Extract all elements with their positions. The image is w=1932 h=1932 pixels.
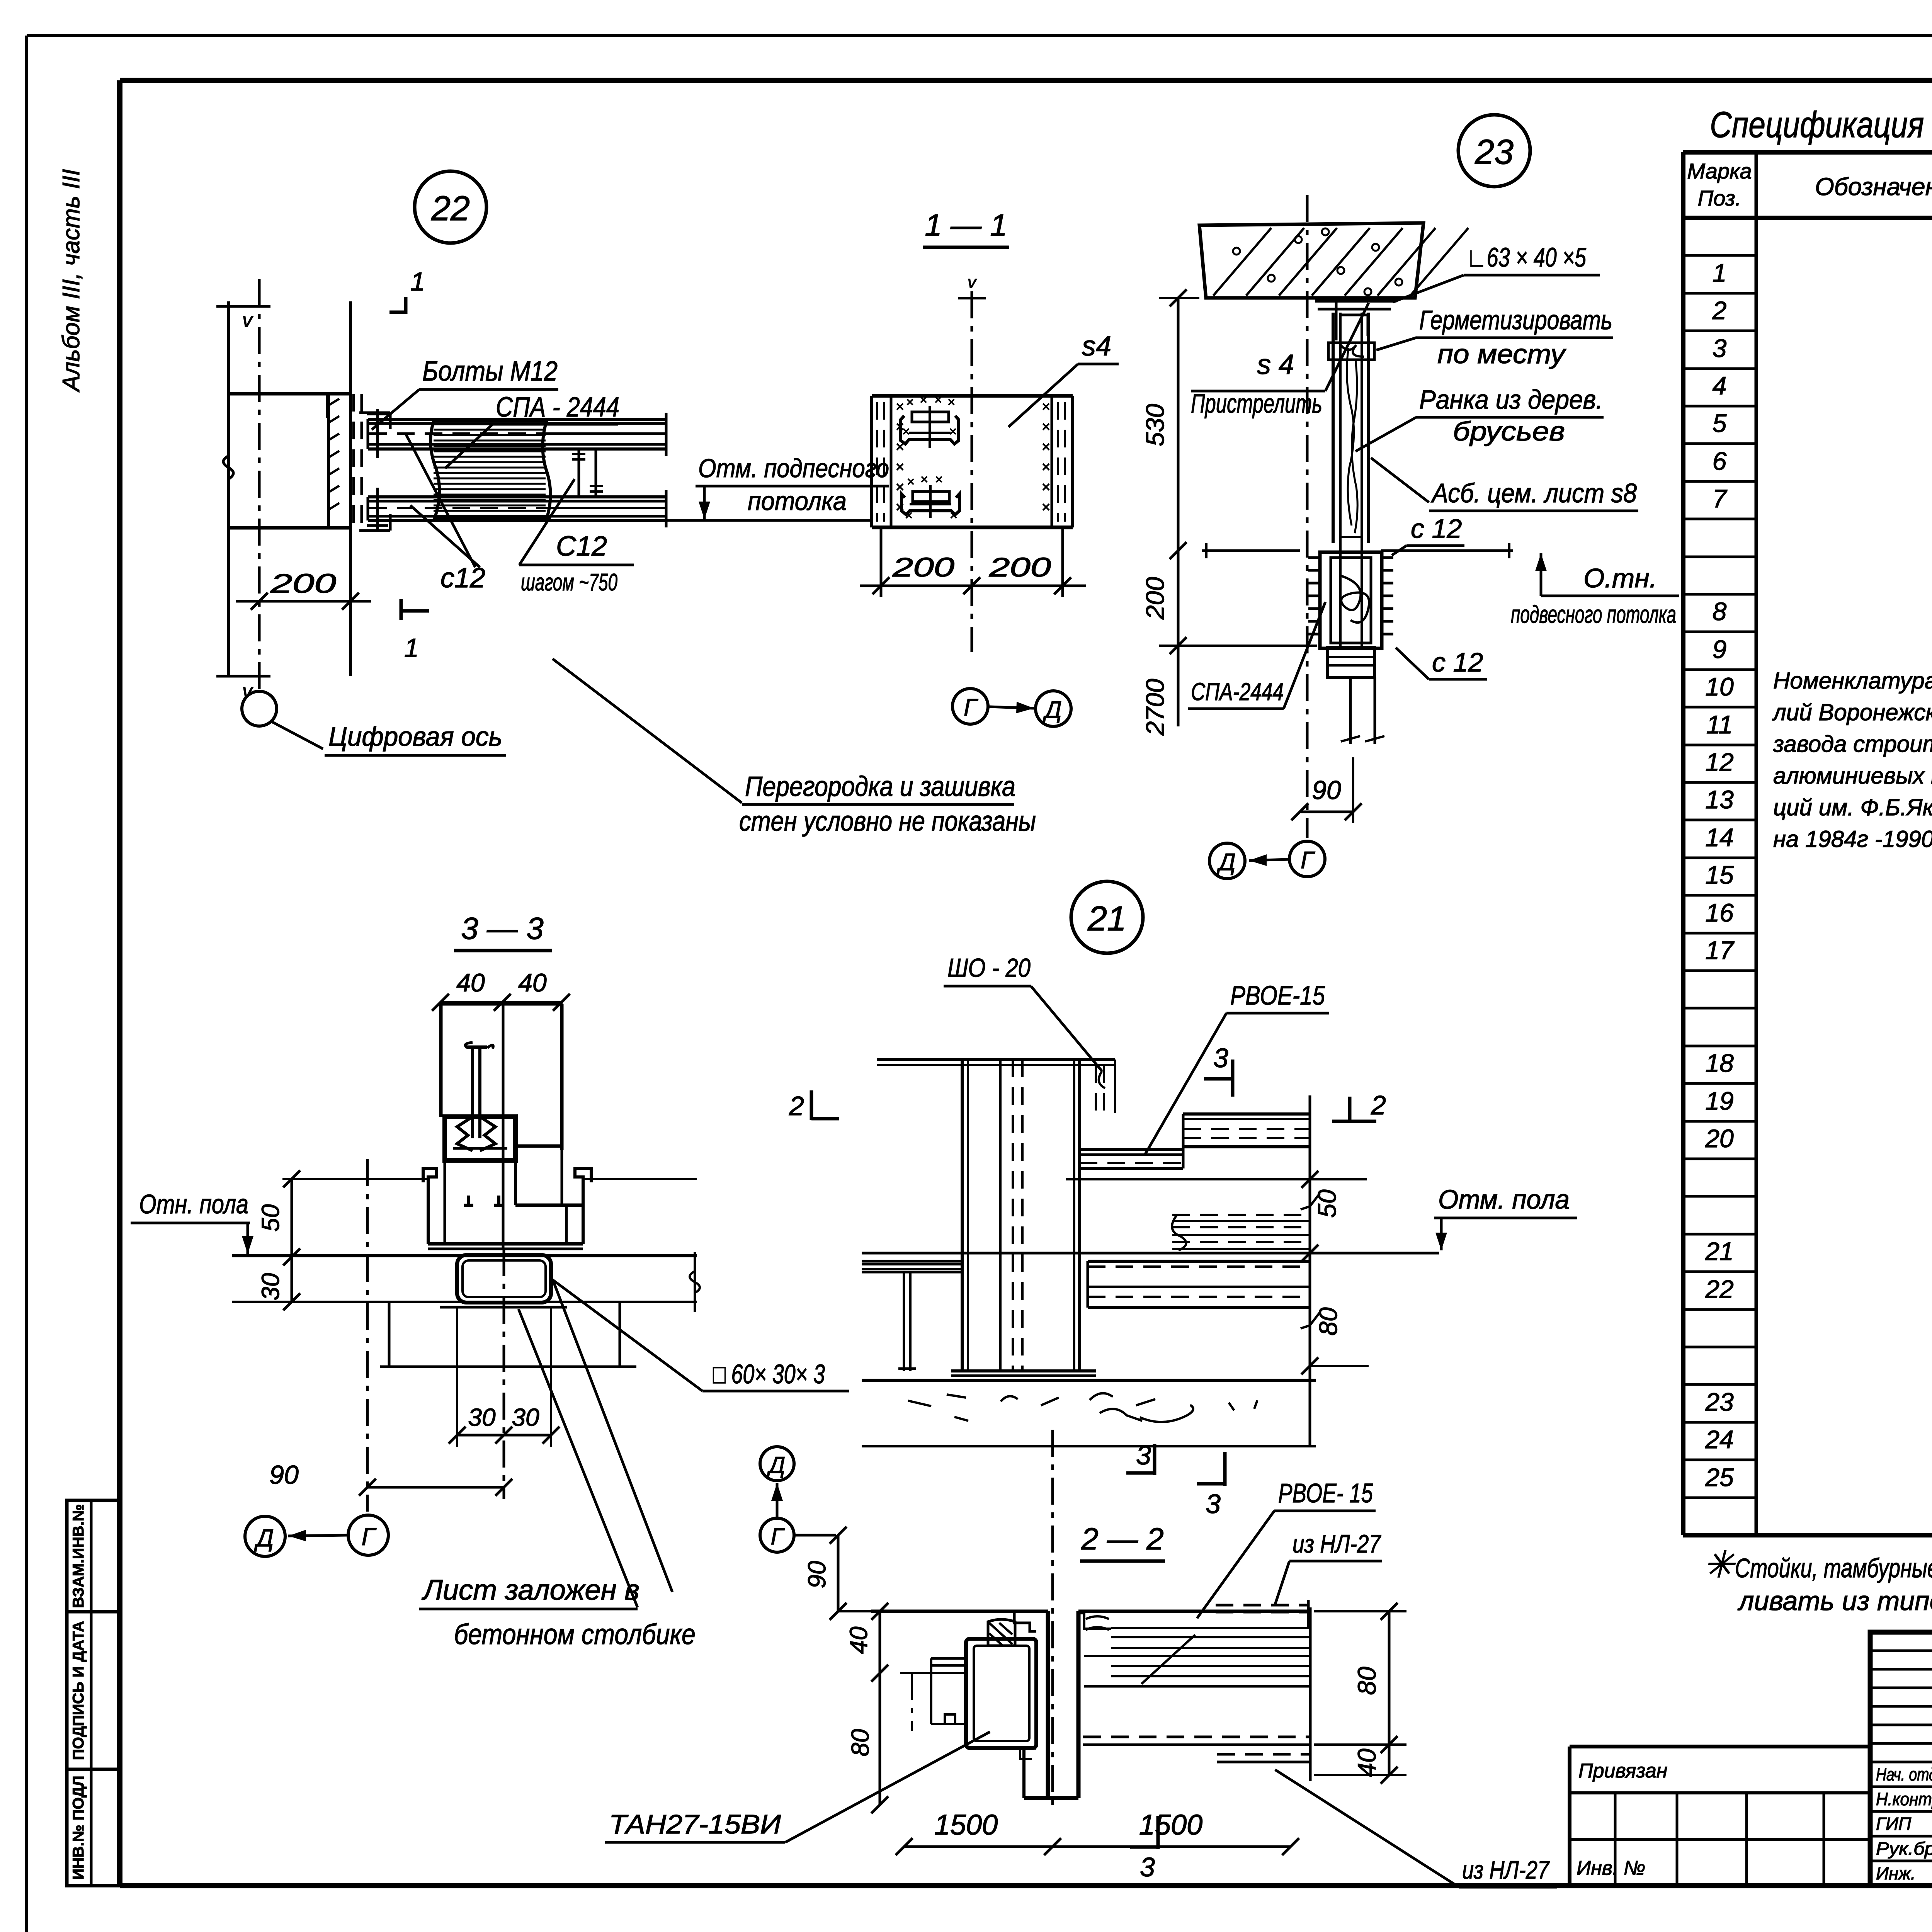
- svg-text:200: 200: [989, 552, 1051, 582]
- svg-text:3: 3: [1140, 1852, 1155, 1882]
- svg-text:80: 80: [1352, 1667, 1381, 1695]
- label c12 lower: [1396, 647, 1487, 679]
- svg-text:Д: Д: [1216, 849, 1236, 876]
- svg-text:О.тн.: О.тн.: [1583, 563, 1657, 593]
- label RVOE-15 21: [1145, 980, 1329, 1155]
- hidden rail lines: [547, 434, 666, 508]
- svg-text:30: 30: [512, 1403, 539, 1431]
- svg-text:ИНВ.№ ПОДЛ: ИНВ.№ ПОДЛ: [70, 1776, 87, 1879]
- svg-text:24: 24: [1705, 1425, 1733, 1454]
- left frame TAN 2-2: [871, 1611, 1048, 1759]
- axis bubbles D G 23: [1209, 841, 1325, 879]
- column base plate: [951, 1371, 1096, 1376]
- axis center 3-3: [503, 1249, 505, 1499]
- svg-text:Пристрелить: Пристрелить: [1191, 388, 1322, 418]
- svg-text:40: 40: [518, 968, 547, 997]
- section mark 3 bottom 2-2: [1130, 1816, 1158, 1882]
- svg-text:РВОЕ-15: РВОЕ-15: [1230, 980, 1325, 1010]
- upper rail C12: [368, 413, 666, 456]
- dims left 90 40 80 2-2: [803, 1527, 966, 1813]
- svg-text:×: ×: [920, 472, 928, 487]
- svg-text:из НЛ-27: из НЛ-27: [1293, 1529, 1381, 1558]
- section mark 2 right 21: [1332, 1090, 1386, 1123]
- svg-text:Стойки, тамбурные блоки и: Стойки, тамбурные блоки и нащельники тре…: [1735, 1553, 1932, 1583]
- svg-text:10: 10: [1705, 672, 1734, 701]
- nomenclature note: [1772, 668, 1932, 852]
- svg-text:200: 200: [270, 568, 337, 599]
- svg-text:25: 25: [1705, 1463, 1734, 1492]
- svg-text:19: 19: [1705, 1087, 1733, 1115]
- cross tie C12: [572, 449, 603, 497]
- svg-text:22: 22: [431, 189, 470, 228]
- svg-text:50: 50: [257, 1204, 284, 1232]
- label c12 upper: [1392, 514, 1464, 555]
- panel rect 1-1: [872, 396, 1073, 527]
- label c12 rails: [405, 433, 485, 594]
- svg-text:завода строительных: завода строительных: [1773, 731, 1932, 757]
- right rail plan 2-2: [1078, 1607, 1310, 1781]
- svg-text:13: 13: [1705, 785, 1734, 814]
- svg-text:Обозначение: Обозначение: [1815, 173, 1932, 201]
- svg-text:ПОДПИСЬ И ДАТА: ПОДПИСЬ И ДАТА: [70, 1621, 87, 1760]
- svg-text:×: ×: [1042, 399, 1050, 415]
- label C12 shagom 750: [519, 479, 634, 596]
- svg-text:14: 14: [1705, 823, 1733, 852]
- partition edge dashed: [354, 394, 362, 528]
- svg-text:∟63 × 40 ×5: ∟63 × 40 ×5: [1466, 242, 1587, 272]
- svg-text:□ 60× 30× 3: □ 60× 30× 3: [713, 1359, 825, 1389]
- svg-text:Лист заложен в: Лист заложен в: [422, 1574, 639, 1606]
- dimension 40 40: [432, 968, 570, 1011]
- title block left grid: [1870, 1632, 1932, 1886]
- svg-text:1: 1: [1713, 259, 1727, 287]
- svg-text:×: ×: [906, 395, 914, 410]
- svg-text:СПА - 2444: СПА - 2444: [496, 392, 619, 423]
- svg-text:Асб. цем. лист s8: Асб. цем. лист s8: [1430, 478, 1637, 508]
- section mark 2 left 21: [789, 1090, 839, 1121]
- svg-text:23: 23: [1475, 133, 1514, 172]
- svg-text:18: 18: [1705, 1049, 1734, 1077]
- svg-text:бетонном столбике: бетонном столбике: [454, 1618, 696, 1650]
- dims right 80 40 2-2: [1314, 1603, 1406, 1784]
- svg-text:Г: Г: [362, 1523, 377, 1551]
- section mark 3 bottom 21: [1197, 1452, 1225, 1519]
- svg-text:3 — 3: 3 — 3: [461, 911, 543, 946]
- label sheet embedded: [419, 1281, 696, 1650]
- svg-text:9: 9: [1713, 635, 1727, 663]
- vertical dimensions 23: [1141, 289, 1317, 736]
- svg-text:23: 23: [1705, 1388, 1734, 1416]
- svg-text:Отм. подпесного: Отм. подпесного: [698, 454, 889, 483]
- svg-text:Инв. №: Инв. №: [1577, 1857, 1645, 1879]
- svg-text:Спецификация к схемам распол: Спецификация к схемам расположения двере…: [1710, 104, 1932, 145]
- label SPA-2444: [445, 392, 619, 468]
- svg-text:с 12: с 12: [1432, 647, 1483, 677]
- svg-text:40: 40: [845, 1626, 872, 1654]
- svg-text:на 1984г -1990гг.: на 1984г -1990гг.: [1773, 826, 1932, 852]
- label s4 pristrelit: [1191, 303, 1369, 418]
- embedded tube 60x30x3: [440, 1255, 567, 1307]
- svg-text:3: 3: [1713, 334, 1727, 362]
- left rail stub 21: [862, 1261, 962, 1371]
- section mark 1 top: [389, 267, 425, 314]
- partition rail upper 21: [1080, 1114, 1310, 1168]
- column grid lines detail 22: [216, 301, 350, 702]
- svg-text:×: ×: [896, 399, 904, 415]
- svg-text:200: 200: [892, 552, 954, 582]
- label partition not shown: [553, 659, 1036, 837]
- ceiling level note 22: [696, 454, 889, 519]
- column section detail 22: [228, 394, 350, 528]
- detail 21 bubble: [1071, 881, 1143, 953]
- angle bracket 63x40x5: [1315, 301, 1396, 340]
- column section 2-2: [1024, 1611, 1078, 1798]
- dimension 90: [1291, 757, 1362, 823]
- section mark 1 bottom: [401, 599, 429, 663]
- svg-text:Д: Д: [254, 1524, 274, 1552]
- svg-text:×: ×: [905, 508, 913, 523]
- lower stack 23: [1328, 648, 1384, 744]
- svg-text:200: 200: [1141, 577, 1169, 620]
- lower C channel 1-1: [901, 472, 959, 523]
- svg-text:Н.контр: Н.контр: [1876, 1789, 1932, 1809]
- svg-text:530: 530: [1141, 404, 1169, 446]
- partition rail lower 21: [1088, 1261, 1310, 1308]
- svg-text:ВЗАМ.ИНВ.№: ВЗАМ.ИНВ.№: [70, 1504, 87, 1608]
- label s4 left: [1009, 331, 1119, 427]
- svg-text:12: 12: [1705, 748, 1733, 776]
- svg-text:брусьев: брусьев: [1453, 416, 1565, 446]
- svg-text:Ранка из дерев.: Ранка из дерев.: [1419, 384, 1603, 415]
- svg-text:потолка: потолка: [748, 486, 847, 516]
- svg-text:17: 17: [1705, 936, 1735, 964]
- svg-text:1500: 1500: [1139, 1809, 1203, 1841]
- ceiling level line 23: [1202, 543, 1513, 558]
- ceiling level note 23: [1511, 553, 1679, 628]
- axis bubbles D G 2-2: [760, 1447, 836, 1552]
- axis 1-1: [958, 273, 986, 652]
- vertical dims 50 30: [257, 1170, 697, 1310]
- svg-text:Цифровая ось: Цифровая ось: [328, 721, 502, 752]
- svg-text:×: ×: [1042, 459, 1050, 475]
- svg-text:из НЛ-27: из НЛ-27: [1462, 1855, 1550, 1884]
- axis extension 2-2 left: [911, 1673, 913, 1731]
- axis bubbles D G 3-3: [245, 1515, 388, 1556]
- detail 23 bubble: [1458, 115, 1530, 187]
- concrete slab hatched: [1199, 223, 1468, 298]
- dimension 200 left: [236, 568, 371, 610]
- svg-text:×: ×: [935, 472, 943, 487]
- svg-text:Г: Г: [1301, 847, 1315, 874]
- label angle 63x40x5 23: [1393, 242, 1600, 302]
- table grid: [1683, 152, 1932, 1535]
- section mark 3 top 21: [1204, 1043, 1233, 1097]
- svg-text:шагом ~750: шагом ~750: [521, 569, 617, 596]
- svg-text:40: 40: [456, 968, 485, 997]
- svg-text:80: 80: [1314, 1307, 1342, 1336]
- svg-text:7: 7: [1713, 484, 1728, 513]
- svg-text:21: 21: [1087, 900, 1126, 938]
- signature rows: [1876, 1764, 1932, 1883]
- label RVOE-15 2-2: [1197, 1478, 1376, 1618]
- svg-text:50: 50: [1313, 1189, 1341, 1218]
- bolts M12 marks: [359, 409, 390, 531]
- svg-text:22: 22: [1705, 1275, 1733, 1303]
- svg-text:РВОЕ- 15: РВОЕ- 15: [1278, 1478, 1373, 1508]
- svg-text:Болты М12: Болты М12: [422, 356, 558, 387]
- svg-text:стен условно не показаны: стен условно не показаны: [739, 806, 1036, 837]
- floor line 21: [862, 1252, 1439, 1255]
- C12 block: [1308, 552, 1393, 648]
- svg-text:Альбом III, часть III: Альбом III, часть III: [58, 169, 85, 393]
- svg-text:2 — 2: 2 — 2: [1081, 1522, 1163, 1556]
- svg-text:Перегородка и зашивка: Перегородка и зашивка: [745, 771, 1015, 802]
- svg-text:×: ×: [949, 424, 957, 439]
- label iz NL-27 lower: [1275, 1770, 1557, 1887]
- axis 23: [1306, 195, 1309, 838]
- svg-text:×: ×: [950, 508, 957, 523]
- svg-text:✳: ✳: [1703, 1544, 1736, 1585]
- svg-text:5: 5: [1713, 409, 1727, 437]
- svg-text:ГИП: ГИП: [1876, 1814, 1912, 1834]
- svg-text:Номенклатура изде-: Номенклатура изде-: [1773, 668, 1932, 694]
- table header texts: [1687, 155, 1932, 214]
- svg-text:2: 2: [1712, 296, 1727, 325]
- axis line 2-2: [1051, 1430, 1054, 1808]
- section 3-3 title: [454, 911, 552, 951]
- label germetizirovat: [1376, 305, 1613, 369]
- svg-text:×: ×: [907, 474, 915, 489]
- svg-text:v: v: [242, 309, 253, 332]
- footnote asterisk: [1703, 1544, 1932, 1616]
- svg-text:×: ×: [1042, 479, 1050, 495]
- svg-text:лий Воронежского: лий Воронежского: [1772, 699, 1932, 725]
- svg-text:×: ×: [1042, 439, 1050, 455]
- axis G 3-3: [366, 1159, 369, 1512]
- upper C channel 1-1: [901, 393, 959, 448]
- svg-text:30: 30: [468, 1403, 496, 1431]
- label SPA-2444 23: [1188, 602, 1325, 709]
- svg-text:1: 1: [404, 633, 419, 663]
- svg-text:21: 21: [1705, 1237, 1733, 1265]
- svg-text:ливать из типовых изделий: ливать из типовых изделий .: [1737, 1586, 1932, 1616]
- dimension 90 3-3: [269, 1460, 512, 1496]
- svg-text:30: 30: [257, 1273, 284, 1301]
- aluminium profile 3-3: [423, 1004, 591, 1249]
- svg-text:Д: Д: [1043, 697, 1062, 723]
- svg-text:40: 40: [1352, 1748, 1381, 1777]
- seal clamp: [1328, 343, 1374, 360]
- vertical dims 50 80 right 21: [1301, 1095, 1369, 1446]
- svg-text:Рук.бр.: Рук.бр.: [1876, 1838, 1932, 1859]
- lower rail C12: [368, 490, 666, 527]
- svg-text:1 — 1: 1 — 1: [925, 208, 1007, 242]
- svg-text:Г: Г: [771, 1524, 785, 1549]
- door post frame: [1333, 313, 1368, 649]
- margin stamp boxes: [67, 1500, 121, 1886]
- ceiling line: [666, 519, 872, 522]
- column elevation 21: [877, 1060, 1115, 1371]
- svg-text:8: 8: [1713, 597, 1727, 626]
- svg-text:СПА-2444: СПА-2444: [1191, 678, 1284, 706]
- svg-text:×: ×: [947, 395, 955, 410]
- svg-text:Нач. отд.: Нач. отд.: [1876, 1764, 1932, 1784]
- svg-text:×: ×: [920, 393, 927, 407]
- label TAN27-15VI: [605, 1732, 990, 1842]
- svg-text:2700: 2700: [1141, 679, 1169, 736]
- floor line 3-3: [232, 1252, 700, 1312]
- svg-text:3: 3: [1136, 1440, 1151, 1470]
- svg-text:×: ×: [902, 424, 910, 439]
- svg-text:6: 6: [1713, 447, 1727, 475]
- svg-text:90: 90: [269, 1460, 299, 1490]
- svg-text:11: 11: [1706, 710, 1733, 739]
- label asbestos sheet: [1371, 458, 1638, 511]
- svg-text:Марка: Марка: [1687, 159, 1752, 183]
- svg-text:90: 90: [1312, 776, 1341, 805]
- label ShO-20: [944, 953, 1105, 1088]
- svg-text:s4: s4: [1082, 331, 1111, 362]
- svg-text:2: 2: [789, 1091, 804, 1121]
- title block frame: [1870, 1632, 1932, 1886]
- svg-text:Инж.: Инж.: [1876, 1863, 1916, 1883]
- profile pin 3-3: [465, 1043, 493, 1138]
- svg-text:×: ×: [1042, 419, 1050, 435]
- dimension 30 30: [449, 1306, 560, 1447]
- svg-text:×: ×: [896, 459, 904, 475]
- svg-text:алюминиевых конструк: алюминиевых конструк: [1773, 763, 1932, 789]
- table rows text: [1705, 218, 1932, 1529]
- floor level note 3-3: [131, 1189, 253, 1254]
- label bolts M12: [372, 356, 558, 430]
- svg-text:3: 3: [1213, 1043, 1228, 1073]
- upper NL-27 strip dashes: [1216, 1600, 1308, 1627]
- label iz NL-27 upper: [1275, 1529, 1382, 1604]
- section 1-1 title: [923, 208, 1009, 247]
- dimension 200 200: [860, 527, 1086, 597]
- svg-text:ТАН27-15ВИ: ТАН27-15ВИ: [609, 1809, 781, 1839]
- svg-text:90: 90: [803, 1561, 831, 1588]
- label tube 60x30x3: [553, 1280, 849, 1391]
- svg-text:v: v: [968, 273, 977, 292]
- svg-text:3: 3: [1206, 1489, 1221, 1519]
- section 2-2 title: [1080, 1522, 1165, 1561]
- svg-text:s 4: s 4: [1257, 349, 1294, 380]
- svg-text:ций им. Ф.Б.Якубовского: ций им. Ф.Б.Якубовского: [1773, 794, 1932, 820]
- privyazan sub table: [1570, 1747, 1870, 1886]
- svg-text:по месту: по месту: [1437, 339, 1566, 369]
- svg-text:С12: С12: [556, 531, 607, 562]
- svg-text:1500: 1500: [934, 1809, 998, 1841]
- svg-text:Г: Г: [964, 694, 978, 721]
- dimension 1500 1500: [896, 1809, 1299, 1855]
- svg-text:с 12: с 12: [1411, 514, 1462, 544]
- svg-text:ШО - 20: ШО - 20: [947, 953, 1031, 983]
- svg-text:4: 4: [1713, 371, 1727, 400]
- axis bubbles G D: [952, 689, 1071, 726]
- floor level note 21: [1434, 1184, 1577, 1250]
- svg-text:1: 1: [410, 267, 425, 296]
- svg-text:80: 80: [846, 1729, 874, 1757]
- svg-text:Привязан: Привязан: [1578, 1760, 1667, 1782]
- anchor plate SPA-2444 hatched: [430, 420, 550, 518]
- detail 22 bubble: [415, 171, 486, 243]
- dim extension line 21: [1066, 1178, 1367, 1180]
- svg-text:Поз.: Поз.: [1698, 186, 1742, 210]
- svg-text:×: ×: [1042, 499, 1050, 515]
- label wooden frame: [1355, 384, 1604, 451]
- digital axis line: [242, 279, 323, 749]
- concrete post 3-3: [380, 1302, 636, 1367]
- section mark 3 top 2-2: [1126, 1440, 1155, 1475]
- partition floor strip 21: [1172, 1215, 1310, 1250]
- svg-text:Отм. пола: Отм. пола: [1438, 1184, 1570, 1214]
- svg-text:подвесного потолка: подвесного потолка: [1511, 600, 1676, 628]
- svg-text:15: 15: [1705, 861, 1734, 889]
- svg-text:16: 16: [1705, 898, 1734, 927]
- svg-text:Отн. пола: Отн. пола: [139, 1189, 248, 1219]
- svg-text:2: 2: [1371, 1090, 1386, 1120]
- svg-text:20: 20: [1705, 1124, 1734, 1153]
- floor slab and ground 21: [862, 1380, 1316, 1446]
- digital axis label: [325, 721, 506, 755]
- svg-text:Д: Д: [767, 1452, 785, 1478]
- svg-text:Герметизировать: Герметизировать: [1419, 305, 1612, 335]
- svg-text:×: ×: [934, 393, 942, 407]
